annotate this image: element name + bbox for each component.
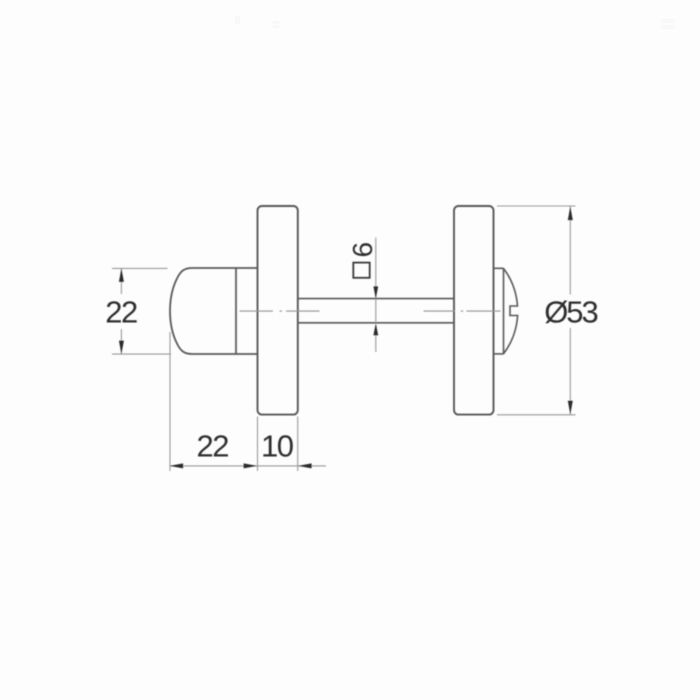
spindle (square bar, side view) top edge: [298, 298, 454, 300]
dim square-6 up arrowhead: [373, 323, 378, 335]
thumbturn knob (side view): [170, 268, 258, 354]
coin-turn release (side view) top tab: [494, 267, 504, 269]
dim square-6 tail below: [375, 335, 377, 352]
dim 22 left arrowhead: [170, 463, 184, 468]
dim 22 (knob diameter) top extension line: [112, 267, 168, 269]
knob collar divider line: [235, 268, 237, 354]
bottom dimension line: [170, 465, 326, 467]
label square 6 (spindle size), rotated: [347, 242, 378, 258]
centerline through right rose: [424, 310, 501, 312]
dim 22 right arrowhead: [244, 463, 258, 468]
dim 22 (knob diameter) dimension line upper part: [120, 269, 122, 294]
dim diameter 53 bottom extension line: [497, 414, 576, 416]
dim square-6 (spindle) dimension line above: [375, 238, 377, 298]
bottom dims middle extension line (rose front): [257, 417, 259, 472]
dim 10 outside arrowhead: [298, 463, 312, 468]
dim diameter 53 up arrowhead: [568, 207, 573, 221]
dim 22 (knob diameter) down arrowhead: [119, 341, 124, 355]
bottom dims right extension line (rose back): [297, 417, 299, 472]
bottom dims left extension line (knob nose): [169, 332, 171, 471]
dim 22 (knob diameter) bottom extension line: [112, 353, 171, 355]
square symbol of spindle label: [353, 263, 369, 278]
coin-turn flat face: [503, 268, 505, 354]
svg-text:22: 22: [105, 295, 137, 330]
centerline through knob and left rose: [240, 310, 320, 312]
coin-turn dome arc with coin slot notch: [504, 268, 518, 354]
left rose (escutcheon, side view): [258, 206, 298, 415]
svg-text:Ø53: Ø53: [544, 295, 597, 330]
spindle bottom edge: [298, 322, 454, 324]
dim square-6 line through spindle: [375, 299, 377, 323]
dim diameter 53 dimension line lower part: [569, 328, 571, 414]
dim 22 (knob diameter) up arrowhead: [119, 268, 124, 282]
dim 22 (knob diameter) dimension line lower part: [120, 329, 122, 354]
dim diameter 53 down arrowhead: [568, 401, 573, 415]
svg-text:10: 10: [261, 429, 294, 464]
dim diameter 53 dimension line upper part: [569, 207, 571, 295]
dim square-6 down arrowhead: [373, 286, 378, 298]
svg-text:22: 22: [197, 429, 229, 464]
dim diameter 53 top extension line: [497, 205, 576, 207]
coin-turn bottom tab: [494, 353, 504, 355]
right rose (escutcheon, side view): [454, 206, 494, 415]
svg-text:6: 6: [347, 242, 378, 258]
